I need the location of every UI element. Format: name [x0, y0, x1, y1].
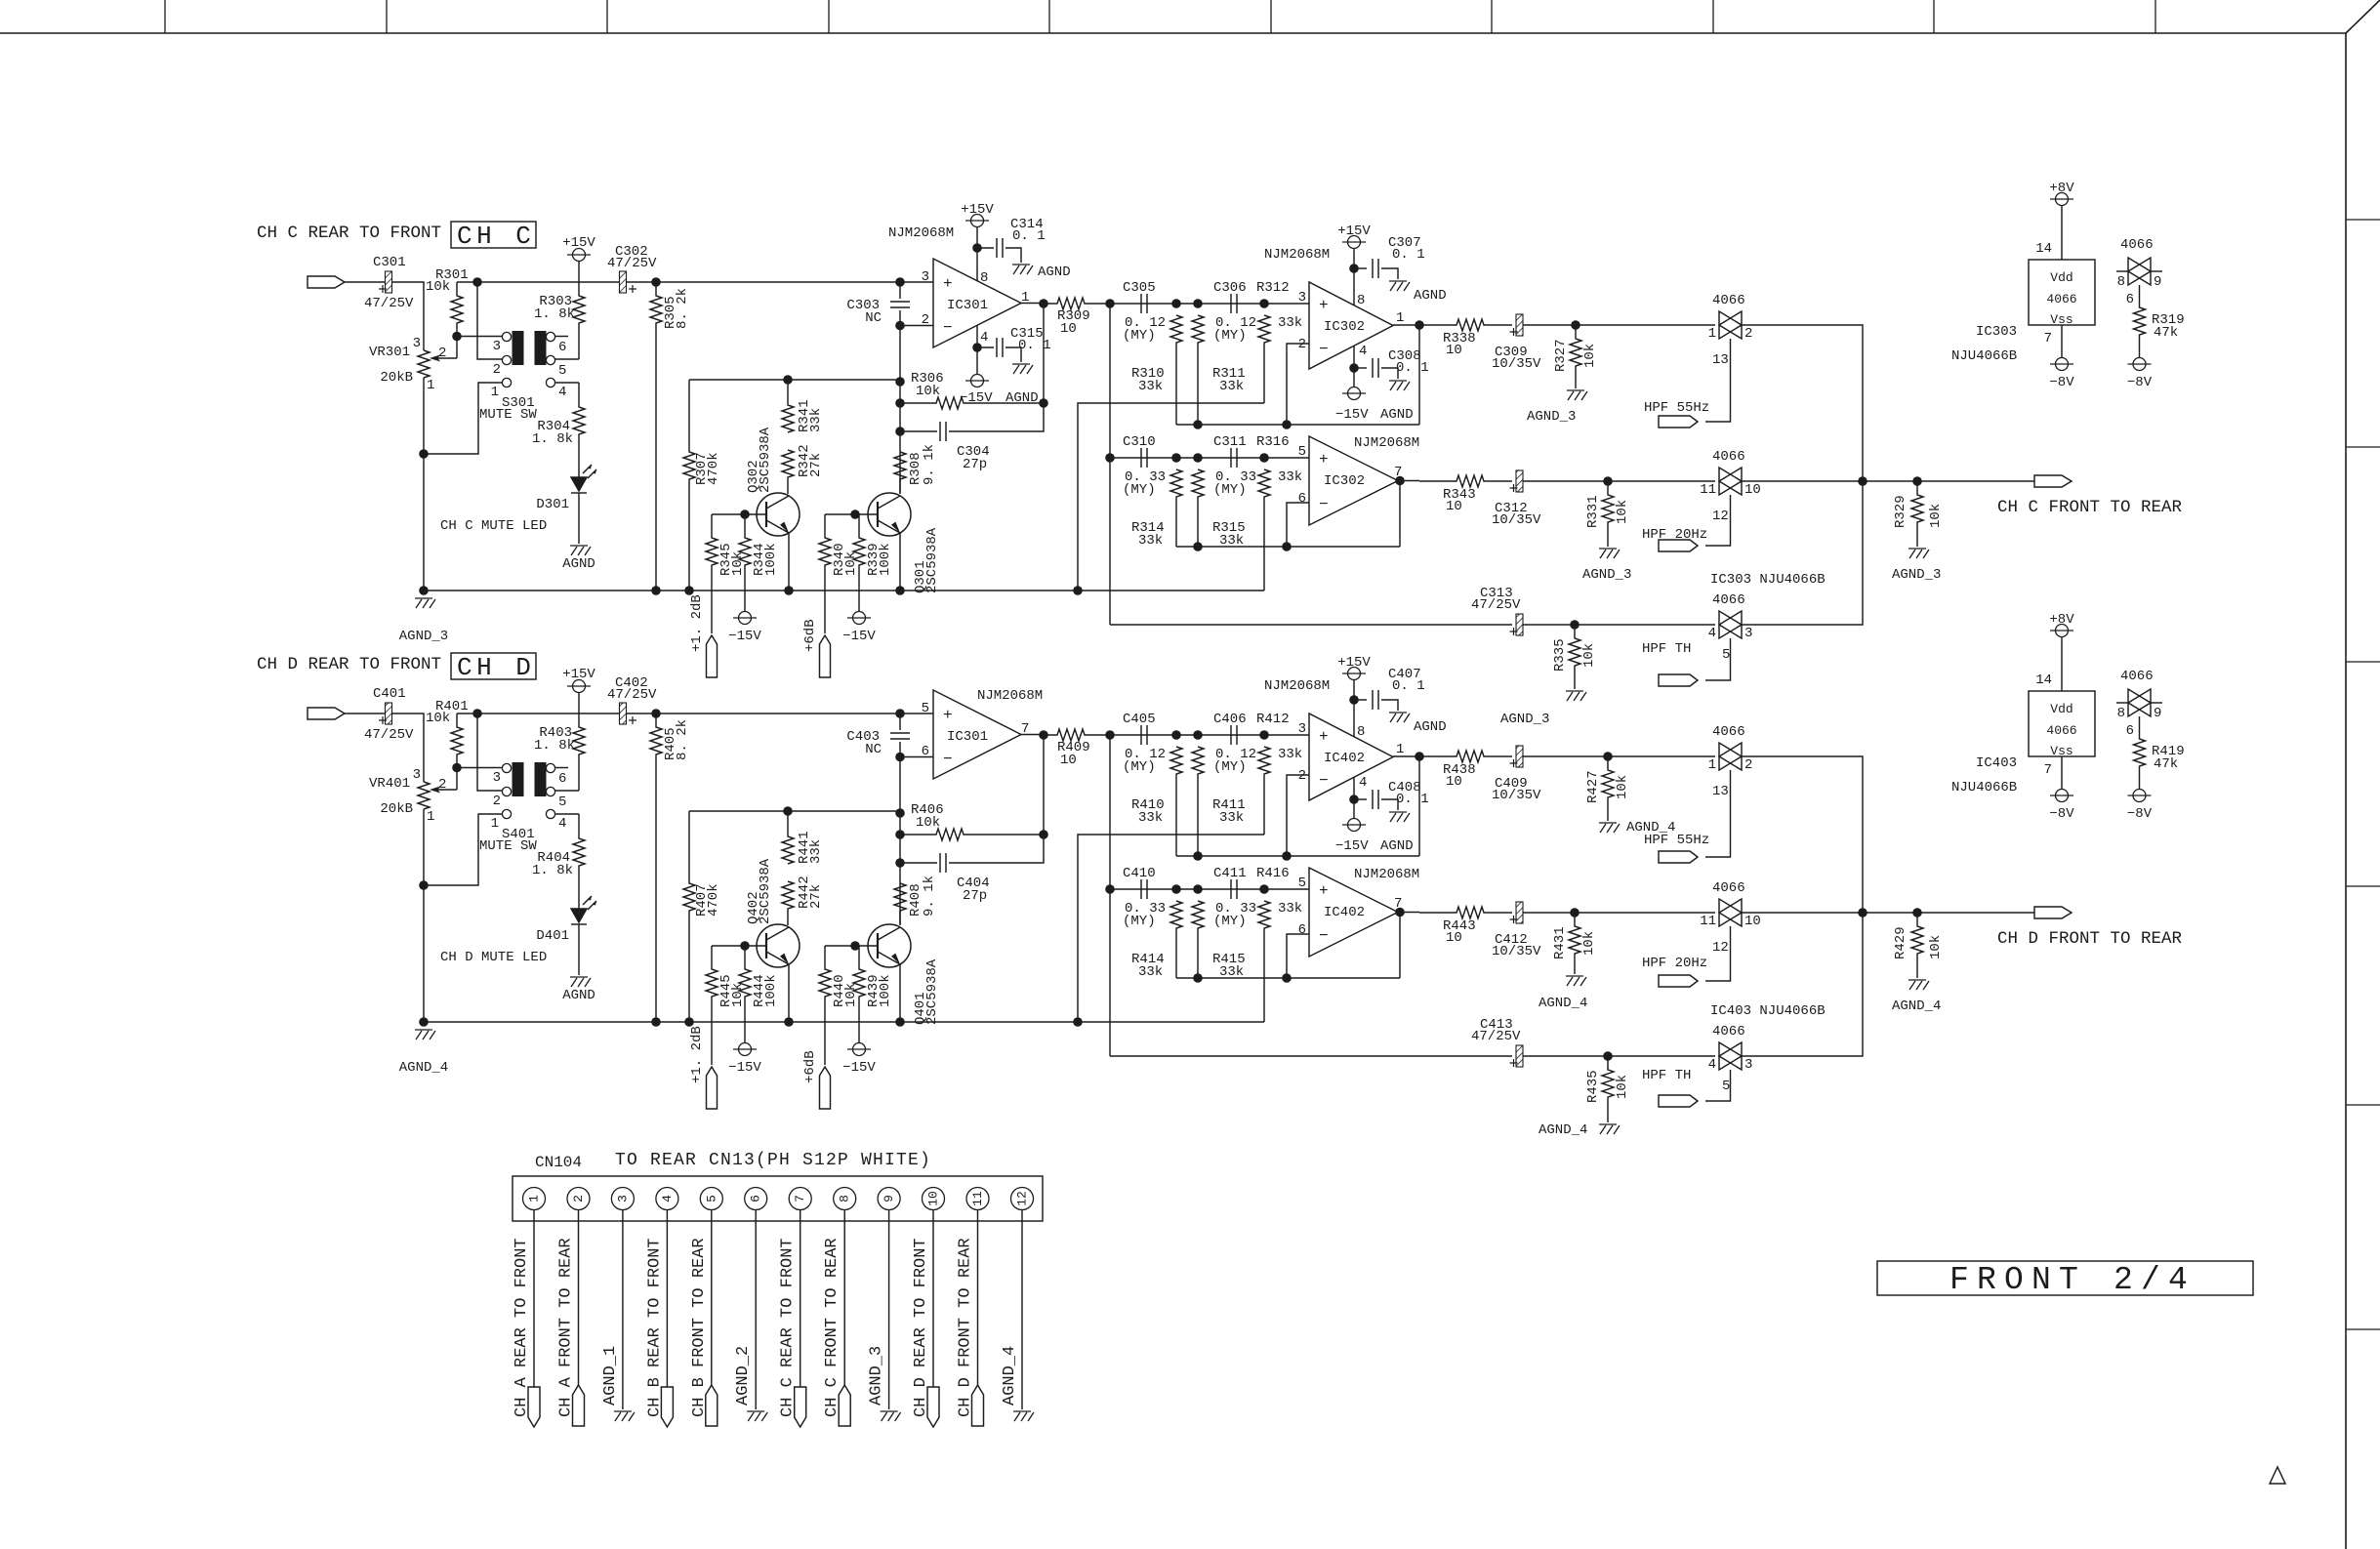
pin2 wire	[1287, 344, 1309, 425]
svg-text:6: 6	[2126, 292, 2134, 307]
flag CH A FRONT TO REAR	[573, 1385, 585, 1426]
svg-text:CH A FRONT TO REAR: CH A FRONT TO REAR	[557, 1238, 576, 1417]
VR301 wiper	[436, 357, 457, 359]
resistor	[1419, 319, 1512, 331]
pin 9 stub	[2151, 702, 2162, 704]
-15V supply	[733, 1043, 757, 1056]
svg-text:4066: 4066	[2046, 723, 2076, 738]
svg-text:+15V: +15V	[1337, 655, 1371, 671]
resistor	[782, 380, 794, 432]
resistor	[1170, 469, 1182, 547]
transistor Q301	[868, 493, 911, 536]
pin 2 wire	[900, 325, 933, 327]
svg-text:10: 10	[926, 1191, 941, 1206]
svg-text:4066: 4066	[2120, 237, 2154, 253]
svg-text:C301: C301	[373, 255, 406, 270]
svg-text:+: +	[943, 275, 953, 293]
flag +6dB	[820, 635, 831, 677]
svg-text:2: 2	[493, 362, 501, 378]
wire	[1381, 368, 1398, 379]
svg-text:10k: 10k	[843, 983, 859, 1007]
control wire	[1705, 926, 1731, 981]
mute drive bus	[689, 810, 900, 812]
capacitor C308	[1373, 358, 1378, 378]
capacitor C306	[1231, 294, 1237, 313]
svg-text:+8V: +8V	[2049, 181, 2074, 196]
row3 wire	[1110, 1055, 1512, 1057]
svg-text:20kB: 20kB	[380, 370, 413, 386]
wire	[1354, 367, 1367, 369]
svg-text:AGND: AGND	[1414, 719, 1447, 735]
junction	[1039, 398, 1048, 408]
junction	[740, 510, 750, 519]
junction	[895, 398, 905, 408]
svg-text:10k: 10k	[426, 711, 450, 726]
svg-text:4: 4	[558, 816, 566, 832]
svg-text:12: 12	[1015, 1191, 1030, 1206]
wire	[900, 862, 937, 864]
svg-text:1. 8k: 1. 8k	[534, 306, 575, 322]
svg-text:CH D REAR TO FRONT: CH D REAR TO FRONT	[912, 1238, 930, 1417]
svg-text:47/25V: 47/25V	[364, 296, 414, 311]
svg-text:47k: 47k	[2154, 325, 2178, 341]
wire	[578, 493, 580, 544]
resistor	[1602, 756, 1614, 821]
ground AGND_4	[1599, 1124, 1620, 1134]
4066 switch 11/10	[1719, 468, 1742, 495]
flag CH B FRONT TO REAR	[706, 1385, 718, 1426]
feedback drop	[1418, 756, 1420, 856]
wire	[578, 924, 580, 975]
resistor	[1170, 747, 1182, 856]
svg-text:33k: 33k	[1138, 810, 1163, 826]
resistor	[782, 881, 794, 925]
svg-text:C306: C306	[1213, 280, 1247, 296]
4066 switch 1/2	[1719, 743, 1742, 770]
pin 8 wire	[1353, 680, 1355, 737]
svg-text:VR401: VR401	[369, 776, 410, 792]
svg-text:8: 8	[1357, 293, 1365, 308]
junction	[472, 709, 482, 718]
pin 4 wire	[555, 382, 579, 384]
junction	[1105, 299, 1115, 308]
svg-text:(MY): (MY)	[1123, 914, 1156, 929]
junction	[895, 321, 905, 331]
pin 4 wire	[666, 1210, 668, 1388]
flag CH B REAR TO FRONT	[661, 1387, 673, 1427]
ground AGND_4	[1908, 980, 1929, 990]
flag HPF 20Hz	[1659, 975, 1698, 987]
junction	[895, 586, 905, 595]
svg-text:R327: R327	[1553, 339, 1569, 372]
svg-text:AGND: AGND	[562, 556, 595, 572]
wire to mute switch pin2	[477, 282, 502, 359]
junction	[895, 858, 905, 868]
svg-text:−15V: −15V	[1335, 407, 1369, 423]
svg-text:33k: 33k	[1138, 964, 1163, 980]
svg-text:+15V: +15V	[562, 667, 595, 682]
junction	[1858, 476, 1867, 486]
svg-text:CH B REAR TO FRONT: CH B REAR TO FRONT	[645, 1238, 664, 1417]
pin 8 wire	[1353, 249, 1355, 306]
svg-text:TO REAR CN13(PH S12P WHITE): TO REAR CN13(PH S12P WHITE)	[615, 1151, 931, 1170]
pin 4 wire	[555, 813, 579, 815]
CN104 pin 5	[700, 1188, 722, 1210]
wire to switch	[1523, 755, 1715, 757]
svg-text:10k: 10k	[730, 983, 746, 1007]
flag +1.2dB	[707, 1067, 718, 1109]
svg-text:10k: 10k	[916, 384, 940, 399]
junction	[895, 753, 905, 762]
ground AGND_3	[415, 598, 435, 608]
ground rail	[424, 1021, 1264, 1023]
wire to switch	[1523, 324, 1715, 326]
flag HPF TH	[1659, 674, 1698, 686]
potentiometer VR401	[418, 782, 430, 809]
svg-text:0. 1: 0. 1	[1396, 360, 1429, 376]
capacitor C314	[997, 238, 1003, 258]
resistor	[1911, 481, 1923, 547]
svg-text:AGND: AGND	[1380, 838, 1414, 854]
svg-text:(MY): (MY)	[1123, 759, 1156, 775]
svg-text:Vdd: Vdd	[2050, 270, 2072, 285]
svg-text:4066: 4066	[2120, 669, 2154, 684]
resistor	[1569, 913, 1580, 974]
flag HPF 55Hz	[1659, 416, 1698, 428]
resistor	[1419, 751, 1512, 762]
svg-text:NJU4066B: NJU4066B	[1951, 348, 2017, 364]
pin 1 wire	[424, 814, 502, 885]
svg-text:9. 1k: 9. 1k	[922, 876, 937, 917]
svg-text:8: 8	[2117, 274, 2125, 290]
wire to mute switch pin3	[457, 336, 502, 338]
svg-text:9: 9	[882, 1195, 896, 1203]
svg-text:5: 5	[1722, 1079, 1730, 1094]
resistor	[1170, 315, 1182, 425]
resistor	[1911, 913, 1923, 978]
junction	[1912, 908, 1922, 917]
junction	[651, 709, 661, 718]
resistor	[650, 282, 662, 591]
svg-text:33k: 33k	[1278, 901, 1302, 917]
svg-text:27p: 27p	[963, 457, 987, 472]
svg-text:10k: 10k	[1581, 643, 1597, 668]
revision triangle	[2270, 1467, 2285, 1484]
feedback row2	[1176, 977, 1400, 979]
resistor	[451, 713, 463, 768]
pin 6 wire	[755, 1210, 757, 1410]
svg-text:−15V: −15V	[842, 629, 876, 644]
svg-text:R412: R412	[1256, 712, 1290, 727]
svg-text:+6dB: +6dB	[802, 619, 818, 652]
LED D301	[571, 465, 596, 493]
wire VR to ground rail	[423, 378, 425, 591]
wire to pin 5	[555, 790, 579, 792]
svg-text:−15V: −15V	[842, 1060, 876, 1076]
svg-text:AGND_3: AGND_3	[1527, 409, 1576, 425]
svg-text:NC: NC	[865, 742, 882, 757]
pin 1 wire	[533, 1210, 535, 1388]
ground AGND_4	[415, 1030, 435, 1039]
svg-text:33k: 33k	[1219, 810, 1244, 826]
svg-text:1: 1	[1396, 310, 1404, 326]
svg-text:+15V: +15V	[562, 235, 595, 251]
svg-text:12: 12	[1712, 509, 1729, 524]
-15V supply	[733, 612, 757, 625]
svg-text:−15V: −15V	[728, 629, 761, 644]
junction	[1193, 453, 1203, 463]
junction	[419, 449, 429, 459]
row3 to mix	[1742, 481, 1863, 625]
svg-text:10k: 10k	[1615, 1075, 1630, 1099]
CN104 pin 8	[834, 1188, 856, 1210]
resistor	[573, 383, 585, 477]
wire to volume pot	[392, 282, 425, 350]
junction	[1603, 752, 1613, 761]
resistor	[1192, 469, 1204, 547]
junction	[895, 427, 905, 436]
wire	[1005, 248, 1021, 263]
IC303 power box	[2029, 260, 2095, 325]
svg-text:+: +	[1319, 451, 1329, 469]
junction	[1570, 908, 1580, 917]
junction	[419, 880, 429, 890]
pin 10 wire	[932, 1210, 934, 1388]
svg-text:AGND: AGND	[1414, 288, 1447, 304]
LED D401	[571, 896, 596, 924]
resistor	[706, 514, 718, 633]
svg-text:0. 1: 0. 1	[1396, 792, 1429, 807]
+15V supply	[567, 680, 591, 693]
capacitor C405	[1141, 725, 1147, 745]
resistor	[573, 693, 585, 791]
flag CH A REAR TO FRONT	[528, 1387, 540, 1427]
svg-text:4: 4	[1708, 626, 1716, 641]
junction	[784, 586, 794, 595]
svg-text:3: 3	[1744, 1057, 1752, 1073]
junction	[1171, 730, 1181, 740]
ground AGND_4	[1013, 1411, 1034, 1421]
base wire	[825, 513, 855, 515]
junction	[1193, 542, 1203, 551]
svg-text:FRONT 2/4: FRONT 2/4	[1949, 1262, 2195, 1298]
input flag	[308, 276, 345, 288]
R12 ground return	[1078, 403, 1264, 591]
svg-text:10: 10	[1446, 343, 1462, 358]
pin 4 wire	[1353, 777, 1355, 818]
junction	[419, 586, 429, 595]
svg-text:470k: 470k	[706, 883, 721, 917]
resistor	[1419, 475, 1512, 487]
pin 8 wire	[843, 1210, 845, 1386]
svg-text:2SC5938A: 2SC5938A	[924, 958, 940, 1025]
pin 2 wire	[578, 1210, 580, 1386]
svg-text:7: 7	[793, 1195, 807, 1203]
junction	[1349, 264, 1359, 273]
row1 to mix	[1742, 756, 1863, 913]
flag CH C FRONT TO REAR	[839, 1385, 850, 1426]
pin 9 wire	[888, 1210, 890, 1410]
ground AGND	[1389, 281, 1410, 291]
junction	[1415, 320, 1424, 330]
junction	[1282, 973, 1292, 983]
svg-text:2: 2	[493, 794, 501, 809]
svg-text:7: 7	[2044, 762, 2052, 778]
resistor	[900, 829, 1044, 840]
emitter wire	[788, 964, 790, 1022]
control wire	[1705, 495, 1731, 546]
svg-text:5: 5	[1298, 444, 1306, 460]
svg-text:4: 4	[1359, 775, 1367, 791]
junction	[452, 763, 462, 773]
svg-text:R312: R312	[1256, 280, 1290, 296]
svg-text:4066: 4066	[1712, 293, 1745, 308]
svg-text:7: 7	[2044, 331, 2052, 346]
control wire	[1705, 770, 1731, 857]
filter row 1	[1110, 303, 1309, 305]
svg-text:10k: 10k	[1615, 775, 1630, 799]
svg-text:6: 6	[558, 771, 566, 787]
junction	[1259, 884, 1269, 894]
svg-text:47/25V: 47/25V	[607, 687, 657, 703]
4066 switch 4/3	[1719, 1042, 1742, 1070]
svg-text:IC303: IC303	[1976, 324, 2017, 340]
svg-text:10: 10	[1744, 914, 1761, 929]
capacitor C413	[1516, 1045, 1523, 1067]
resistor	[1258, 901, 1270, 1022]
output wire	[1393, 755, 1419, 757]
mute switch S301	[502, 332, 511, 341]
svg-text:IC301: IC301	[947, 729, 988, 745]
svg-text:10: 10	[1060, 321, 1077, 337]
capacitor C401	[386, 703, 392, 724]
ground rail	[424, 590, 1264, 591]
junction	[784, 1017, 794, 1027]
svg-text:3: 3	[413, 767, 421, 783]
junction	[1858, 908, 1867, 917]
svg-text:IC402: IC402	[1324, 751, 1365, 766]
pin 7 wire	[800, 1210, 801, 1388]
4066 switch 11/10	[1719, 899, 1742, 926]
svg-text:100k: 100k	[763, 974, 779, 1007]
svg-text:5: 5	[922, 701, 929, 716]
junction	[1259, 453, 1269, 463]
feedback drop	[1399, 913, 1401, 978]
svg-text:1: 1	[527, 1195, 542, 1203]
svg-text:CH D REAR TO FRONT: CH D REAR TO FRONT	[257, 655, 441, 674]
junction	[1105, 453, 1115, 463]
flag HPF 55Hz	[1659, 851, 1698, 863]
pin6 wire	[1287, 503, 1309, 547]
junction	[472, 277, 482, 287]
junction	[684, 586, 694, 595]
pin 8 stub	[2116, 270, 2128, 272]
junction	[1349, 695, 1359, 705]
svg-text:4: 4	[1708, 1057, 1716, 1073]
svg-text:R431: R431	[1552, 926, 1568, 959]
svg-text:Vdd: Vdd	[2050, 702, 2072, 716]
svg-text:9: 9	[2154, 706, 2161, 721]
svg-text:1: 1	[1708, 326, 1716, 342]
capacitor C407	[1373, 690, 1378, 710]
svg-text:8: 8	[2117, 706, 2125, 721]
wire	[899, 713, 901, 730]
capacitor C412	[1516, 902, 1523, 923]
svg-text:10/35V: 10/35V	[1492, 788, 1541, 803]
svg-text:14: 14	[2035, 241, 2052, 257]
svg-text:1: 1	[1708, 757, 1716, 773]
resistor	[894, 452, 906, 494]
svg-text:AGND_3: AGND_3	[1582, 567, 1631, 583]
+15V supply	[1342, 236, 1366, 249]
feedback row1	[1176, 424, 1419, 426]
svg-text:IC303 NJU4066B: IC303 NJU4066B	[1710, 572, 1826, 588]
svg-text:R435: R435	[1585, 1070, 1601, 1103]
ground AGND_2	[747, 1411, 767, 1421]
svg-text:3: 3	[922, 269, 929, 285]
svg-text:(MY): (MY)	[1123, 328, 1156, 344]
resistor	[2134, 285, 2146, 357]
svg-text:AGND_4: AGND_4	[1892, 999, 1941, 1014]
resistor	[1044, 298, 1110, 309]
CN104 pin 4	[656, 1188, 678, 1210]
CH D box	[451, 653, 536, 679]
svg-text:−15V: −15V	[728, 1060, 761, 1076]
-15V supply	[965, 375, 989, 387]
svg-text:AGND_3: AGND_3	[868, 1346, 886, 1406]
signal wire	[457, 713, 933, 714]
svg-text:3: 3	[493, 339, 501, 354]
svg-text:47k: 47k	[2154, 756, 2178, 772]
svg-text:AGND_4: AGND_4	[1001, 1346, 1019, 1406]
output wire	[1021, 734, 1044, 736]
junction	[1282, 420, 1292, 429]
svg-text:−8V: −8V	[2127, 806, 2153, 822]
junction	[1171, 884, 1181, 894]
svg-text:−: −	[1319, 772, 1329, 790]
wire VR to ground rail	[423, 809, 425, 1022]
signal wire	[457, 281, 933, 283]
junction	[651, 277, 661, 287]
svg-text:+15V: +15V	[961, 202, 994, 218]
svg-text:−: −	[1319, 341, 1329, 358]
resistor	[573, 814, 585, 909]
resistor	[1570, 325, 1581, 388]
svg-text:6: 6	[1298, 491, 1306, 507]
feedback column	[899, 742, 901, 924]
svg-text:R427: R427	[1585, 770, 1601, 803]
-8V supply	[2128, 358, 2152, 371]
wire	[345, 281, 386, 283]
svg-text:1: 1	[427, 809, 434, 825]
svg-text:2: 2	[1298, 768, 1306, 784]
svg-text:2SC5938A: 2SC5938A	[758, 427, 773, 493]
svg-text:8. 2k: 8. 2k	[675, 719, 690, 760]
svg-text:13: 13	[1712, 784, 1729, 799]
pin 5 wire	[711, 1210, 713, 1386]
wire	[977, 247, 994, 249]
resistor	[650, 713, 662, 1022]
svg-text:0. 1: 0. 1	[1392, 678, 1425, 694]
control wire	[1705, 339, 1731, 422]
svg-text:33k: 33k	[808, 839, 824, 864]
svg-text:AGND_4: AGND_4	[1539, 1122, 1587, 1138]
svg-text:0. 1: 0. 1	[1392, 247, 1425, 263]
svg-text:AGND: AGND	[1038, 265, 1071, 280]
svg-text:+: +	[1319, 728, 1329, 746]
junction	[895, 1017, 905, 1027]
svg-text:9: 9	[2154, 274, 2161, 290]
